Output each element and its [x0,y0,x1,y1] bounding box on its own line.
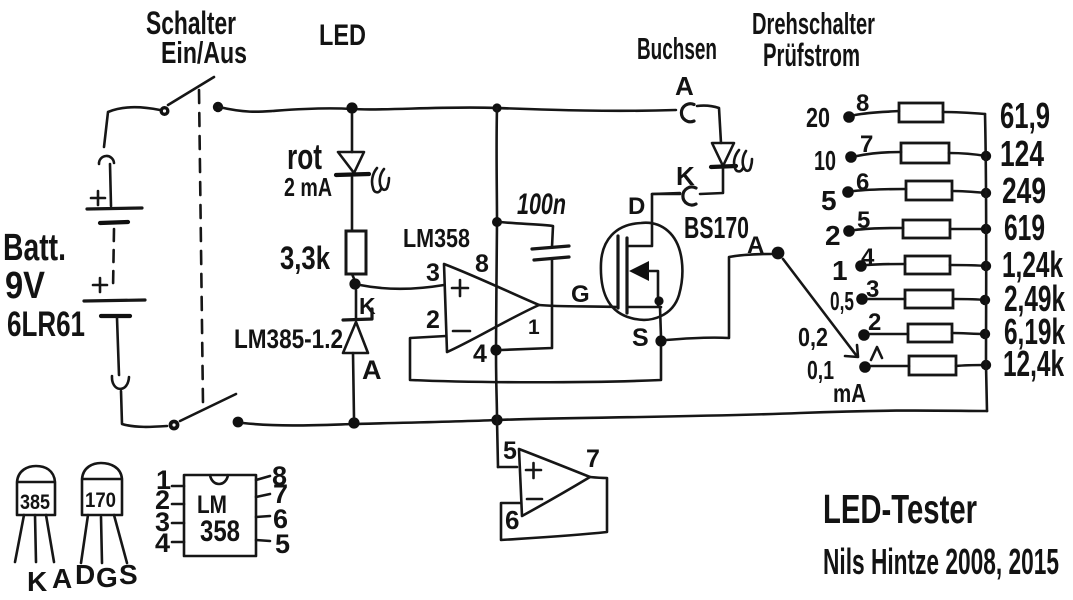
contact dot pin 1 [859,361,871,373]
wire contact to resistor R3 [854,189,906,191]
wire resistor to node [352,274,355,281]
node bottom rail / LM385 [348,417,359,428]
op-amp U1B plus [526,463,541,478]
wire resistor R2 to rail [949,153,986,156]
wire contact to resistor R8 [871,365,909,368]
wire cap tap [500,222,553,247]
svg-text:0,5: 0,5 [830,286,854,316]
resistor R1 61,9 [899,103,943,122]
svg-text:D: D [75,559,95,590]
svg-text:5: 5 [503,437,517,465]
wire socket K to drain [652,193,680,196]
label Drehschalter Pruefstrom [752,6,875,73]
LED rot (diode triangle) [338,152,364,173]
node pin4 [490,344,501,355]
node source tap [654,296,663,305]
socket A (Buchse) [681,104,694,122]
wire resistor R5 to rail [950,265,986,266]
svg-text:S: S [632,324,649,352]
wire resistor R8 to rail [956,365,986,366]
socket K (Buchse) [683,187,696,205]
svg-text:Nils Hintze 2008, 2015: Nils Hintze 2008, 2015 [823,541,1059,582]
svg-text:A: A [747,232,764,259]
label Schalter Ein/Aus [146,5,247,70]
op-amp U1B minus [527,498,542,501]
bottom rail [243,411,987,426]
switch lower right terminal dot [233,417,244,428]
capacitor 100n plates [532,246,569,260]
op-amp plus sign [452,280,468,296]
label rot 2mA [284,136,332,202]
switch upper contact [160,106,170,116]
svg-text:LED: LED [319,19,366,52]
node cap tap [492,217,502,227]
svg-text:K: K [676,161,695,191]
contact dot pin 8 [843,111,855,123]
svg-text:mA: mA [833,378,866,408]
wire rail to LED rot [351,114,354,152]
node rail row 12,4k [981,360,991,370]
node rail row 6,19k [980,329,990,339]
contact dot pin 3 [856,293,868,305]
DIP left pins [172,486,184,542]
wire zener to bottom rail [353,353,354,418]
switch upper right terminal dot [213,102,223,112]
channel bar [625,238,628,313]
wire source down [660,307,661,337]
svg-text:A: A [52,563,72,594]
wire contact to resistor R2 [857,152,901,156]
node rail row 249 [981,188,991,198]
main vertical rail [496,108,498,467]
svg-text:124: 124 [1000,133,1044,174]
node rail row 124 [981,151,991,161]
svg-text:619: 619 [1004,207,1045,248]
gate bar [616,236,619,308]
switch upper blade [168,77,214,105]
svg-text:2: 2 [825,220,841,251]
wire contact to resistor R4 [855,228,903,230]
svg-text:2: 2 [868,309,881,336]
wire battery minus down [117,318,119,375]
package TO-92 170 body [82,463,122,515]
resistor R3 249 [906,181,952,200]
svg-text:LM358: LM358 [403,223,470,253]
svg-text:5: 5 [821,185,837,216]
wire U1B output to inverting input [501,477,607,540]
op-amp minus sign [453,330,470,333]
battery cell2 long plate [84,300,145,301]
svg-text:5: 5 [275,529,290,559]
svg-text:7: 7 [586,445,600,473]
svg-text:100n: 100n [517,188,566,221]
source bar [627,306,661,309]
svg-text:3,3k: 3,3k [280,240,330,276]
battery cell2 short plate [101,314,130,318]
svg-text:LM385-1.2: LM385-1.2 [234,324,343,354]
svg-text:9V: 9V [5,265,46,307]
LED rot light arrows [372,168,381,192]
wire socket A to DUT LED [697,106,721,143]
substrate arrow [629,261,649,281]
svg-text:Batt.: Batt. [3,227,66,269]
wire hook to lower switch [121,391,167,427]
wire contact to resistor R7 [870,333,908,336]
DIP right pins [256,476,270,541]
svg-text:1: 1 [832,255,848,286]
svg-text:358: 358 [200,515,240,548]
battery label Batt. 9V 6LR61 [3,227,85,344]
svg-text:A: A [362,355,382,385]
battery internal dashed link [113,229,114,290]
battery cell1 long plate [87,208,142,209]
wire resistor R4 to rail [950,228,986,231]
svg-text:3: 3 [426,259,440,287]
DIP-8 LM358 body [184,475,256,556]
node top rail / main vertical [492,103,501,112]
wire S to wiper [666,254,771,340]
contact dot pin 7 [845,151,857,163]
wire cap to pin4 rail [501,260,552,350]
svg-text:61,9: 61,9 [1000,95,1050,136]
wire battery plus to switch [104,107,160,147]
node top rail / LED branch [346,102,357,113]
svg-text:170: 170 [85,489,116,512]
resistor R7 6,19k [908,324,952,342]
svg-text:S: S [119,559,138,590]
svg-text:2 mA: 2 mA [284,172,332,202]
svg-text:6: 6 [505,505,519,535]
drain tap [629,193,680,246]
wire contact to resistor R1 [855,111,899,115]
op-amp U1B pin5 wire [498,466,517,469]
pin label 1 [871,347,882,360]
svg-text:6: 6 [856,169,869,196]
svg-text:Drehschalter: Drehschalter [752,6,875,41]
svg-text:1: 1 [528,316,540,339]
battery cell1 short plate [100,222,128,223]
switch lower contact [169,420,180,431]
wire contact to resistor R6 [868,298,905,301]
DUT LED light arrows [734,150,743,171]
svg-text:rot: rot [287,136,322,177]
node LM385 / pin3 [349,278,360,289]
svg-text:Ein/Aus: Ein/Aus [161,35,247,70]
TO-92 385 legs [15,515,54,562]
node rail row 2,49k [980,295,990,305]
battery cell2 plus sign [93,278,107,292]
wire resistor R3 to rail [952,191,986,193]
node bottom rail / main vertical [491,414,502,425]
zener LM385 cathode bar [343,309,372,320]
node rail row 1,24k [981,261,991,271]
switch mechanical dashed link [199,90,203,404]
svg-text:0,2: 0,2 [798,322,828,352]
top rail [219,107,676,112]
wire hook to battery [110,164,111,206]
op-amp U1B triangle [519,449,590,516]
svg-text:6LR61: 6LR61 [7,305,85,344]
battery bottom connector hook [112,376,129,389]
svg-text:4: 4 [473,340,487,368]
battery top connector hook [99,156,114,164]
TO-92 170 legs [81,515,127,563]
svg-text:D: D [628,193,645,220]
wire resistor R1 to rail [943,112,985,114]
transistor Q1 BS170 body circle [601,223,683,320]
DUT LED triangle [712,143,734,166]
wire node to op-amp pin3 [360,285,444,289]
svg-text:385: 385 [20,491,50,514]
resistor R5 1,24k [905,256,950,274]
svg-text:12,4k: 12,4k [1003,343,1065,384]
svg-text:A: A [675,71,694,101]
resistor R2 124 [901,143,949,163]
contact dot pin 6 [842,186,854,198]
svg-text:249: 249 [1002,170,1046,211]
svg-text:BS170: BS170 [684,210,749,245]
wiper arrow [783,259,856,355]
svg-text:4: 4 [155,528,170,558]
contact dot pin 5 [843,225,855,237]
resistor 3,3k [346,231,366,274]
svg-text:LED-Tester: LED-Tester [823,486,977,532]
wire resistor R7 to rail [952,333,985,334]
op-amp U1A triangle [444,264,539,352]
svg-text:G: G [96,562,118,593]
svg-text:G: G [571,281,590,308]
wire contact to resistor R5 [867,264,905,265]
svg-text:20: 20 [806,102,830,133]
svg-text:Buchsen: Buchsen [637,31,717,66]
svg-text:K: K [27,566,47,597]
wire LED rot to resistor [351,177,354,231]
svg-text:10: 10 [814,145,836,176]
contact dot pin 4 [855,260,867,272]
node rail row 619 [981,224,991,234]
LED rot cathode bar [336,174,369,175]
svg-text:2: 2 [426,306,440,334]
wire node to zener [355,290,358,318]
svg-text:8: 8 [475,250,489,278]
resistor R4 619 [903,220,950,238]
zener LM385 triangle [343,322,368,353]
switch lower blade [180,394,236,421]
wire op-amp output to gate [539,305,617,307]
svg-text:0,1: 0,1 [807,355,834,385]
node S [655,335,666,346]
wire resistor R6 to rail [953,299,985,300]
resistor R8 12,4k [909,356,956,375]
node wiper A [772,247,785,260]
svg-text:Prüfstrom: Prüfstrom [763,37,860,73]
resistor R6 2,49k [905,290,953,308]
right rail [985,114,987,411]
DUT LED cathode bar [711,166,736,167]
battery cell1 plus sign [91,191,105,205]
contact dot pin 2 [858,329,870,341]
package TO-92 385 body [17,466,55,515]
wire DUT LED to socket K [700,168,723,194]
wire feedback pin2 [410,336,661,382]
